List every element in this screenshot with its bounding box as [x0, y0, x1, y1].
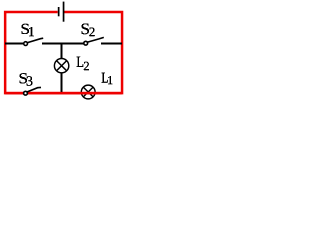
lamp L2: [54, 58, 68, 72]
battery B1 positive plate: [63, 2, 65, 22]
label L2: [77, 57, 89, 70]
label S3: [20, 73, 33, 86]
lamp L1: [81, 85, 95, 99]
wire loop border (left, bottom, right, top-left, top-right segments): [5, 12, 122, 93]
node T-junction / wire down to L2: [61, 43, 63, 59]
switch S3: [24, 87, 41, 95]
wire middle center (S1 to S2): [42, 43, 84, 45]
wire L2 to bottom border: [61, 73, 63, 92]
switch S1: [24, 38, 44, 45]
label S2: [82, 24, 95, 37]
label S1: [22, 24, 34, 36]
wire middle right (S2 to border): [101, 43, 122, 45]
switch S2: [84, 37, 104, 45]
wire bottom border (redrawn over lamp L1): [5, 92, 122, 95]
battery B1 negative plate: [58, 7, 60, 16]
label L1: [102, 73, 113, 84]
wire middle left (border to S1): [5, 43, 24, 45]
